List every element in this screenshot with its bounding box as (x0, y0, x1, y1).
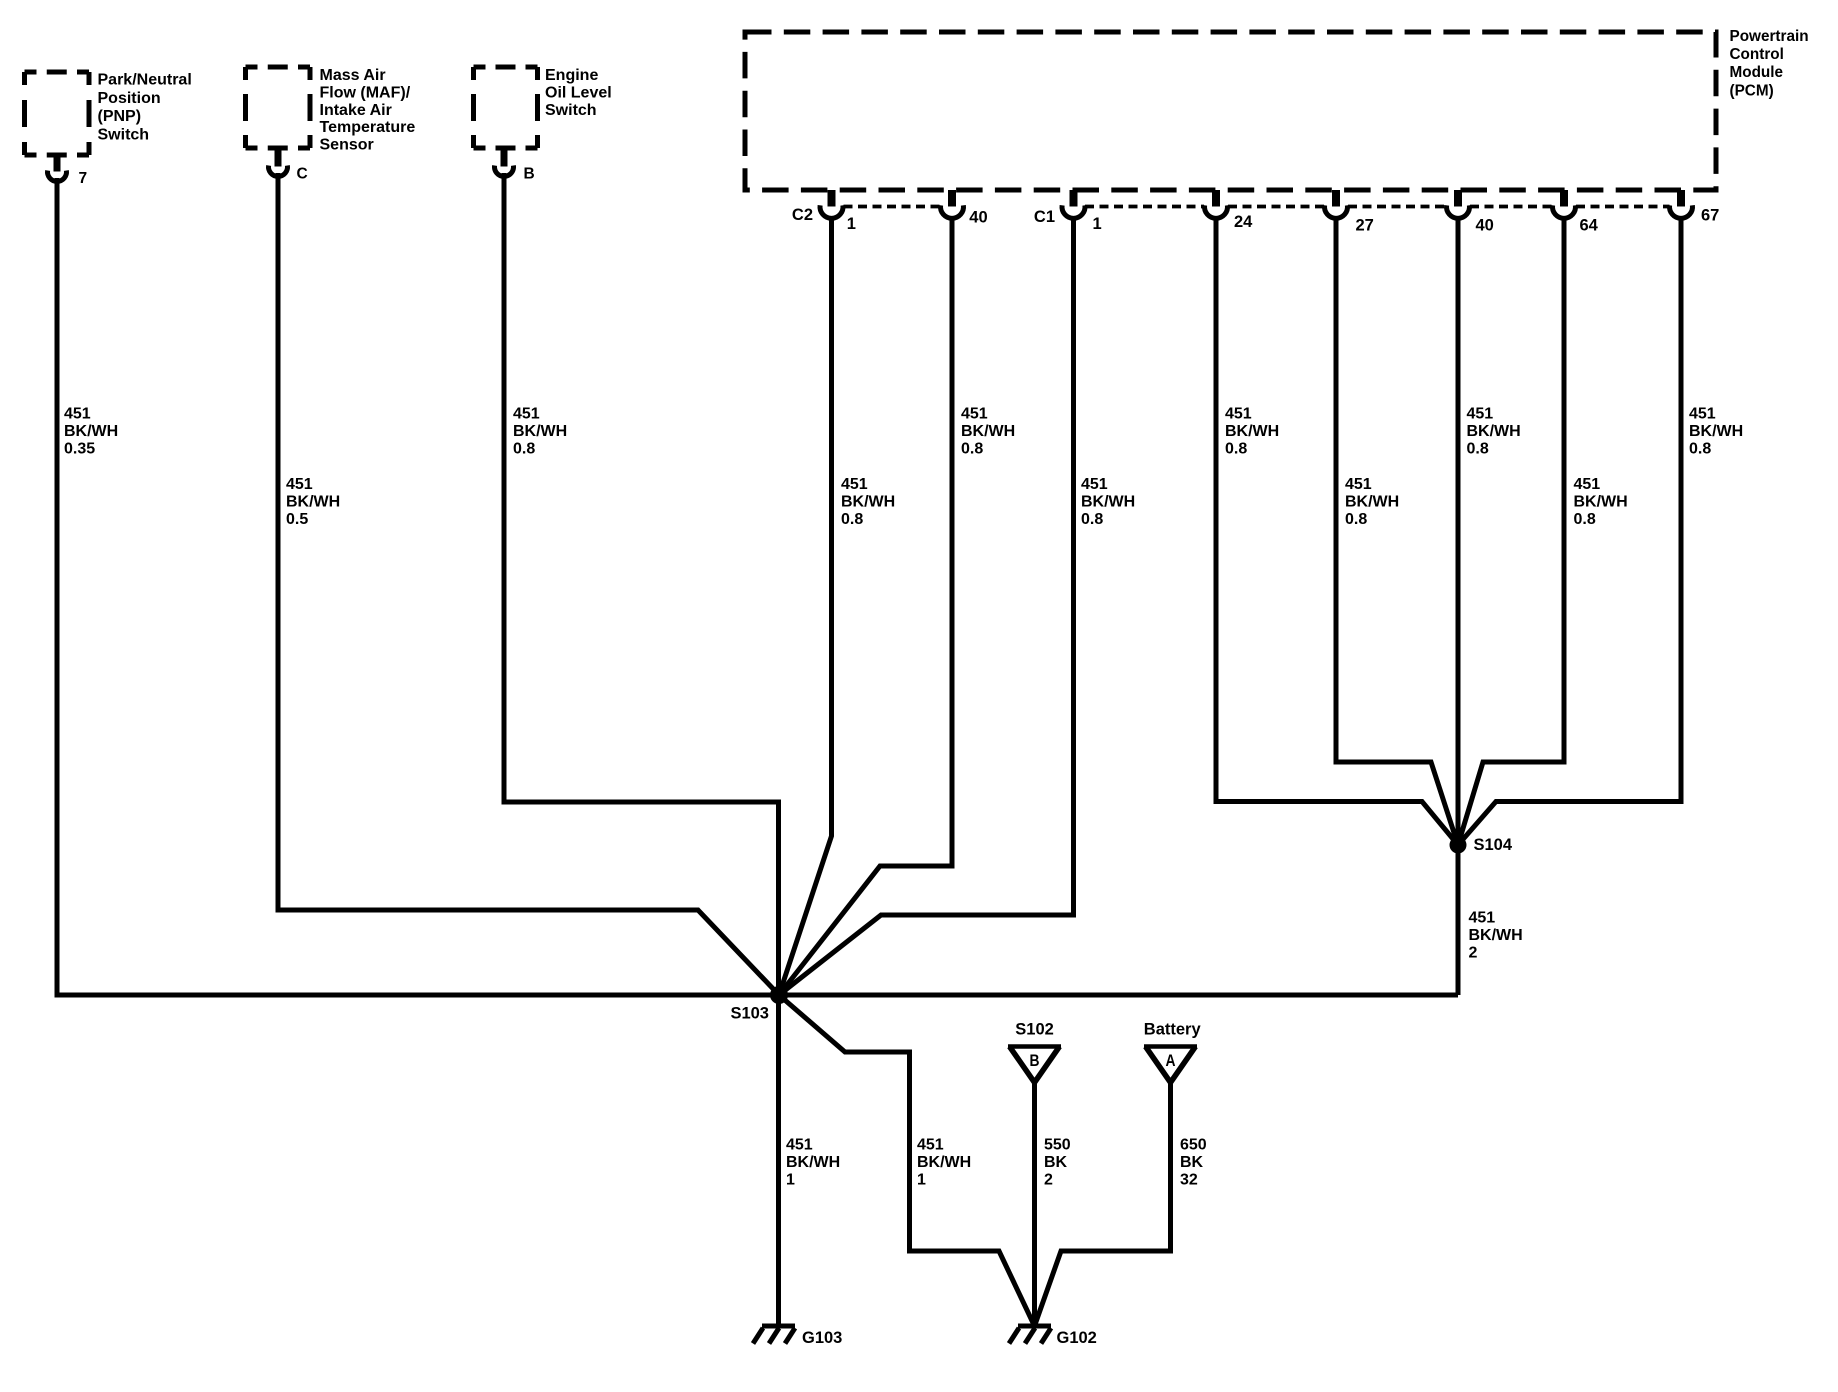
svg-text:G102: G102 (1057, 1329, 1097, 1347)
connector pin C of MAF sensor (275, 147, 282, 167)
wire 451 BK/WH 0.8 from PCM pin 27 to splice S104 (1336, 218, 1458, 845)
connector row dotted link C2 pins 1-40 (844, 205, 942, 209)
svg-text:G103: G103 (802, 1329, 842, 1347)
svg-text:S104: S104 (1474, 836, 1513, 854)
svg-text:451: 451 (1345, 476, 1372, 493)
svg-text:Park/Neutral: Park/Neutral (98, 72, 192, 89)
svg-text:451: 451 (786, 1137, 813, 1154)
PCM connector pin C2/1 (828, 190, 836, 207)
svg-text:BK: BK (1044, 1154, 1068, 1171)
wire 451 BK/WH 0.8 from PCM C2 pin 1 to splice S103 (779, 218, 832, 995)
svg-text:Control: Control (1730, 46, 1784, 63)
svg-text:B: B (524, 165, 535, 182)
svg-text:S103: S103 (730, 1004, 769, 1022)
svg-text:Intake Air: Intake Air (320, 102, 392, 119)
svg-text:1: 1 (1093, 215, 1102, 233)
svg-text:24: 24 (1234, 213, 1253, 231)
svg-text:Switch: Switch (98, 127, 150, 144)
svg-text:40: 40 (1476, 217, 1494, 235)
svg-text:Switch: Switch (545, 102, 597, 119)
svg-text:451: 451 (1469, 910, 1496, 927)
svg-text:Oil Level: Oil Level (545, 85, 612, 102)
wire 451 BK/WH 0.8 from PCM pin 24 to splice S104 (1216, 218, 1458, 845)
svg-text:1: 1 (917, 1172, 926, 1189)
wire 451 BK/WH 0.8 from PCM pin 64 to splice S104 (1458, 218, 1564, 845)
svg-text:Temperature: Temperature (320, 119, 416, 136)
wire 451 BK/WH 0.8 from PCM pin 67 to splice S104 (1458, 218, 1681, 845)
svg-text:451: 451 (841, 476, 868, 493)
PCM connector pin 27 (1332, 190, 1340, 207)
svg-text:BK/WH: BK/WH (786, 1154, 840, 1171)
svg-text:32: 32 (1180, 1172, 1198, 1189)
wire 451 BK/WH 1 from splice S103 down to ground G103 (776, 995, 781, 1326)
svg-text:0.35: 0.35 (64, 441, 95, 458)
svg-text:0.8: 0.8 (1081, 511, 1103, 528)
svg-text:BK/WH: BK/WH (841, 494, 895, 511)
svg-text:451: 451 (1467, 406, 1494, 423)
svg-text:64: 64 (1580, 217, 1599, 235)
svg-text:67: 67 (1701, 206, 1719, 224)
wire 451 BK/WH 0.8 from PCM C2 pin 40 to splice S103 (779, 218, 952, 995)
splice junction S103 (770, 986, 788, 1004)
svg-text:0.8: 0.8 (961, 441, 983, 458)
ground G103 (762, 1324, 795, 1329)
PCM connector pin 67 (1677, 190, 1685, 207)
svg-text:Position: Position (98, 90, 161, 107)
svg-text:27: 27 (1356, 217, 1374, 235)
component box: Park/Neutral Position (PNP) Switch (25, 70, 90, 75)
svg-text:650: 650 (1180, 1137, 1207, 1154)
component box: Powertrain Control Module (PCM) (745, 32, 1716, 190)
PCM connector pin C1/1 (1070, 190, 1078, 207)
off-page connector Battery (triangle A) (1144, 1044, 1197, 1049)
wire 451 BK/WH 0.8 from PCM C1 pin 40 to splice S104 (1456, 218, 1461, 845)
svg-text:C1: C1 (1034, 208, 1055, 226)
svg-text:BK/WH: BK/WH (1081, 494, 1135, 511)
svg-text:BK/WH: BK/WH (286, 494, 340, 511)
svg-text:40: 40 (969, 208, 987, 226)
svg-text:7: 7 (79, 170, 88, 187)
off-page connector S102 (triangle B) (1008, 1044, 1061, 1049)
svg-text:(PNP): (PNP) (98, 108, 142, 125)
svg-text:451: 451 (64, 406, 91, 423)
svg-text:451: 451 (286, 476, 313, 493)
svg-text:BK: BK (1180, 1154, 1204, 1171)
svg-text:BK/WH: BK/WH (1689, 423, 1743, 440)
svg-text:BK/WH: BK/WH (1345, 494, 1399, 511)
svg-text:Powertrain: Powertrain (1730, 28, 1809, 45)
svg-text:BK/WH: BK/WH (1467, 423, 1521, 440)
wire 451 BK/WH 0.5 from MAF pin C to splice S103 (278, 173, 779, 995)
wire 451 BK/WH 2 from splice S104 down to main bus (1456, 845, 1461, 995)
svg-text:550: 550 (1044, 1137, 1071, 1154)
svg-text:A: A (1166, 1052, 1176, 1070)
svg-text:0.8: 0.8 (841, 511, 863, 528)
svg-text:Battery: Battery (1144, 1020, 1202, 1038)
svg-text:0.5: 0.5 (286, 511, 308, 528)
PCM connector pin 40 (1454, 190, 1462, 207)
svg-text:2: 2 (1469, 945, 1478, 962)
component box: Engine Oil Level Switch (474, 65, 538, 70)
svg-text:451: 451 (1081, 476, 1108, 493)
svg-text:(PCM): (PCM) (1730, 82, 1774, 99)
wire 451 BK/WH 0.35 from PNP pin 7 down to main bus (57, 178, 779, 995)
svg-text:BK/WH: BK/WH (917, 1154, 971, 1171)
PCM connector pin 40 (948, 190, 956, 207)
wire 451 BK/WH 0.8 from PCM C1 pin 1 to splice S103 (779, 218, 1074, 995)
svg-text:BK/WH: BK/WH (64, 423, 118, 440)
svg-text:BK/WH: BK/WH (1469, 927, 1523, 944)
connector row dotted link C1 pins 1-67 (1085, 205, 1204, 209)
svg-text:451: 451 (513, 406, 540, 423)
svg-text:BK/WH: BK/WH (513, 423, 567, 440)
ground G102 (1018, 1324, 1051, 1329)
svg-text:C: C (297, 165, 308, 182)
wire 650 BK 32 from Battery to ground G102 (1035, 1082, 1171, 1326)
svg-text:S102: S102 (1015, 1020, 1054, 1038)
svg-text:0.8: 0.8 (1345, 511, 1367, 528)
component box: Mass Air Flow (MAF)/Intake Air Temperature Sensor (246, 65, 311, 70)
svg-text:0.8: 0.8 (1574, 511, 1596, 528)
svg-text:0.8: 0.8 (513, 441, 535, 458)
svg-text:0.8: 0.8 (1689, 441, 1711, 458)
svg-text:2: 2 (1044, 1172, 1053, 1189)
svg-text:C2: C2 (792, 206, 813, 224)
svg-text:B: B (1030, 1052, 1040, 1070)
svg-text:451: 451 (1574, 476, 1601, 493)
svg-text:1: 1 (847, 215, 856, 233)
svg-text:BK/WH: BK/WH (1225, 423, 1279, 440)
splice junction S104 (1450, 837, 1467, 854)
PCM connector pin 24 (1212, 190, 1220, 207)
svg-text:Sensor: Sensor (320, 136, 374, 153)
wire 451 BK/WH 0.8 from oil level switch pin B to splice S103 (504, 173, 779, 995)
svg-text:Engine: Engine (545, 67, 598, 84)
wire 451 BK/WH 1 from splice S103 to ground G102 (779, 995, 1035, 1326)
PCM connector pin 64 (1560, 190, 1568, 207)
svg-text:451: 451 (1689, 406, 1716, 423)
wire 550 BK 2 from S102 down to ground G102 (1032, 1082, 1037, 1326)
svg-text:Flow (MAF)/: Flow (MAF)/ (320, 85, 411, 102)
svg-text:Mass Air: Mass Air (320, 67, 386, 84)
svg-text:451: 451 (917, 1137, 944, 1154)
svg-text:451: 451 (961, 406, 988, 423)
svg-text:1: 1 (786, 1172, 795, 1189)
connector pin B of engine oil level switch (501, 147, 508, 167)
svg-text:451: 451 (1225, 406, 1252, 423)
svg-text:BK/WH: BK/WH (961, 423, 1015, 440)
svg-text:Module: Module (1730, 64, 1784, 81)
svg-text:0.8: 0.8 (1225, 441, 1247, 458)
connector pin 7 of PNP switch (54, 153, 61, 172)
svg-text:BK/WH: BK/WH (1574, 494, 1628, 511)
svg-text:0.8: 0.8 (1467, 441, 1489, 458)
main bus wire from PNP corner through S103 to S104 drop (57, 993, 1458, 998)
